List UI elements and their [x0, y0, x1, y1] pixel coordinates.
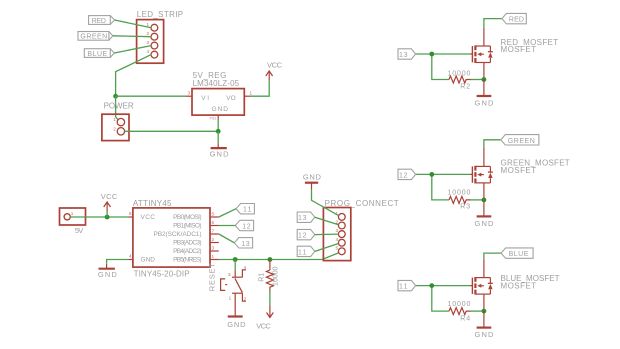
svg-text:GND: GND	[141, 257, 156, 264]
svg-text:R1: R1	[259, 273, 266, 282]
svg-text:4: 4	[244, 265, 247, 270]
svg-text:GREEN: GREEN	[80, 34, 107, 41]
wire R1 to VCC	[269, 291, 271, 305]
pin 2 stub	[210, 242, 219, 244]
svg-text:GND: GND	[98, 270, 117, 279]
svg-text:PB5(NRES): PB5(NRES)	[173, 257, 201, 264]
svg-text:13: 13	[399, 52, 408, 59]
svg-text:BLUE: BLUE	[509, 251, 529, 258]
svg-text:PB2(SCK/ADC1): PB2(SCK/ADC1)	[154, 231, 202, 238]
svg-text:10000: 10000	[448, 301, 471, 308]
svg-text:10000: 10000	[273, 266, 280, 286]
svg-text:GND: GND	[303, 173, 322, 182]
wire VO to VCC	[251, 81, 270, 97]
wire gnd pin to junction	[217, 120, 219, 132]
wire drain to GREEN flag	[484, 140, 501, 148]
svg-text:GND: GND	[210, 149, 229, 158]
connector J1 LED_STRIP body	[137, 20, 164, 64]
pin 4 stub	[128, 259, 133, 261]
net flag 12 at PROG	[297, 229, 315, 239]
svg-text:VCC: VCC	[101, 192, 118, 201]
svg-text:2: 2	[113, 126, 116, 131]
wire junction to R1	[269, 260, 271, 271]
svg-text:10000: 10000	[448, 190, 471, 197]
svg-text:12: 12	[242, 224, 251, 231]
svg-text:PB4(ADC2): PB4(ADC2)	[173, 248, 201, 255]
svg-text:LED_STRIP: LED_STRIP	[137, 10, 183, 19]
wire flag11 to pin4	[315, 244, 339, 252]
svg-text:MOSFET: MOSFET	[501, 166, 537, 175]
wire POWER pin2 to gnd junction	[125, 130, 219, 132]
net flag BLUE	[84, 49, 110, 58]
pin circle 2	[151, 33, 158, 40]
pin 1 stub	[210, 259, 219, 261]
svg-text:BLUE: BLUE	[87, 51, 107, 58]
wire flag12 to pin3	[315, 233, 339, 236]
svg-text:R4: R4	[460, 315, 470, 322]
regulator U1 body	[192, 89, 244, 116]
ground symbol	[228, 315, 243, 317]
svg-text:1: 1	[229, 296, 232, 301]
svg-text:12: 12	[399, 172, 408, 179]
pin 1 stub	[244, 95, 250, 97]
ground symbol at pin4	[106, 264, 108, 268]
svg-text:TINY45-20-DIP: TINY45-20-DIP	[134, 270, 190, 279]
net flag RED	[502, 13, 526, 23]
pin 3 stub	[210, 250, 219, 252]
pin circle 2	[117, 128, 124, 135]
pin circle 1	[151, 24, 158, 31]
svg-text:7: 7	[212, 229, 215, 234]
net flag 13 at PROG	[297, 212, 315, 222]
svg-text:PB3(ADC3): PB3(ADC3)	[173, 240, 201, 247]
wire junction to regulator VI	[116, 95, 186, 97]
svg-text:1: 1	[71, 211, 74, 216]
pin circle 3	[338, 231, 345, 238]
net flag 12	[398, 169, 416, 179]
junction node reset	[233, 257, 238, 262]
IC U2 body	[133, 208, 210, 267]
junction node	[216, 129, 221, 134]
svg-text:4: 4	[146, 49, 149, 54]
svg-text:11: 11	[298, 249, 307, 256]
wire pin7 to flag 13	[219, 234, 235, 243]
wire gnd to pin4	[107, 260, 129, 264]
pin circle 1	[338, 214, 345, 221]
pin 6 stub	[210, 225, 219, 227]
net flag 13	[398, 49, 416, 59]
net flag GREEN	[501, 135, 539, 145]
svg-text:3: 3	[146, 40, 149, 45]
connector PROG body	[323, 208, 350, 261]
svg-text:11: 11	[399, 284, 408, 291]
svg-text:RED: RED	[509, 17, 524, 24]
svg-text:R2: R2	[460, 83, 470, 90]
net flag RED	[89, 16, 111, 25]
svg-text:R3: R3	[460, 204, 470, 211]
svg-text:13: 13	[298, 215, 307, 222]
supply VCC arrow down	[267, 306, 274, 318]
wire drain to RED flag	[484, 19, 502, 28]
svg-text:1: 1	[250, 91, 253, 96]
svg-text:2: 2	[212, 237, 215, 242]
pin circle 4	[151, 51, 158, 58]
svg-text:MOSFET: MOSFET	[501, 282, 537, 291]
svg-text:1: 1	[212, 254, 215, 259]
svg-text:RESET: RESET	[208, 263, 217, 291]
svg-text:8: 8	[129, 211, 132, 216]
wire gnd to pin1	[312, 189, 339, 216]
wire drain to BLUE flag	[484, 253, 501, 259]
pin 8 stub	[128, 216, 133, 218]
pin circle 4	[338, 239, 345, 246]
mosfet core Q3	[416, 259, 493, 327]
svg-text:GND: GND	[475, 99, 494, 108]
pin circle 3	[151, 42, 158, 49]
resistor R1	[266, 270, 273, 292]
pin circle	[64, 214, 70, 220]
switch S1 RESET	[221, 270, 246, 316]
net flag 11 at PROG	[297, 246, 315, 256]
net flag 11 at ATTINY	[236, 204, 254, 214]
wire pin4 to junction	[116, 55, 152, 97]
svg-text:13: 13	[241, 241, 250, 248]
svg-text:2: 2	[244, 297, 247, 302]
svg-text:VI: VI	[201, 95, 209, 102]
junction node R1	[268, 257, 273, 262]
wire flag13 to pin2	[315, 217, 339, 225]
connector 5V body	[60, 208, 86, 225]
svg-text:3: 3	[335, 228, 338, 233]
svg-text:3: 3	[187, 91, 190, 96]
svg-text:3: 3	[212, 246, 215, 251]
svg-text:6: 6	[212, 220, 215, 225]
net flag 12 at ATTINY	[235, 220, 253, 230]
net flag 11	[398, 280, 416, 290]
svg-text:VO: VO	[226, 95, 236, 102]
svg-text:POWER: POWER	[104, 102, 134, 111]
svg-text:12: 12	[298, 233, 307, 240]
junction node	[105, 215, 110, 220]
wire PB5 net	[219, 253, 339, 260]
svg-text:VCC: VCC	[141, 214, 156, 221]
svg-text:11: 11	[243, 207, 252, 214]
wire pin5 to flag 11	[219, 209, 236, 217]
svg-text:GND: GND	[212, 106, 229, 113]
ground symbol above	[311, 184, 313, 190]
svg-text:1: 1	[113, 117, 116, 122]
svg-text:VCC: VCC	[256, 321, 271, 330]
svg-text:VCC: VCC	[267, 60, 283, 69]
pin 3 stub	[186, 95, 192, 97]
svg-text:GND: GND	[475, 330, 494, 339]
wire RED to pin1	[115, 20, 151, 28]
connector POWER body	[102, 114, 129, 140]
svg-text:MOSFET: MOSFET	[501, 45, 537, 54]
pin circle 2	[338, 222, 345, 229]
mosfet core Q1	[416, 28, 493, 96]
svg-text:P$1: P$1	[210, 116, 218, 121]
pin 5 stub	[210, 216, 219, 218]
svg-text:GND: GND	[475, 219, 494, 228]
svg-text:PB0(MOSI): PB0(MOSI)	[173, 214, 201, 221]
ground symbol	[217, 144, 219, 148]
wire 5V to ATTINY VCC	[70, 216, 128, 218]
supply VCC arrow	[104, 202, 111, 212]
net flag GREEN	[78, 32, 109, 41]
svg-text:LM340LZ-05: LM340LZ-05	[193, 79, 240, 88]
pin circle 1	[117, 118, 124, 125]
svg-text:ATTINY45: ATTINY45	[133, 199, 172, 208]
regulator gnd pin stub	[217, 115, 219, 119]
wire BLUE to pin3	[114, 46, 151, 53]
pin circle 5	[338, 248, 345, 255]
wire GREEN to pin2	[113, 35, 151, 38]
svg-text:3: 3	[228, 272, 231, 277]
svg-text:4: 4	[335, 237, 338, 242]
svg-text:5: 5	[212, 212, 215, 217]
junction node	[113, 94, 118, 99]
svg-text:5V: 5V	[75, 226, 83, 235]
net flag BLUE	[501, 248, 533, 258]
net flag 13 at ATTINY	[234, 238, 252, 248]
wire junction down to POWER pin1	[116, 96, 119, 120]
svg-text:10000: 10000	[448, 70, 471, 77]
svg-text:RED: RED	[92, 18, 106, 25]
svg-text:GREEN: GREEN	[508, 138, 535, 145]
svg-text:4: 4	[129, 254, 132, 259]
wire junction to VCC arrow	[106, 211, 108, 217]
mosfet core Q2	[416, 148, 493, 216]
svg-text:2: 2	[146, 31, 149, 36]
supply VCC arrow	[266, 71, 273, 81]
wire pin6 to flag 12	[219, 225, 236, 227]
pin 7 stub	[210, 233, 219, 235]
svg-text:PB1(MISO): PB1(MISO)	[173, 223, 201, 230]
right pin stubs	[210, 217, 219, 260]
wire junction to gnd symbol	[217, 131, 219, 143]
svg-text:GND: GND	[227, 320, 246, 329]
svg-text:5: 5	[335, 245, 338, 250]
wire junction to switch	[234, 260, 236, 271]
